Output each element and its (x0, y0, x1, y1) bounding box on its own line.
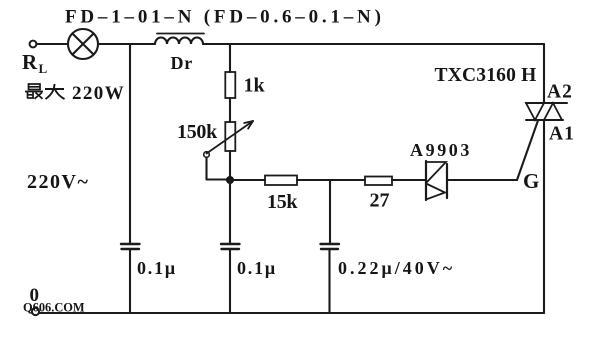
svg-text:A1: A1 (549, 124, 575, 145)
capacitor C3 0.22u (321, 244, 340, 313)
wire 27 to diac (392, 179, 426, 181)
wire junction to 15k (230, 179, 265, 181)
bottom wire (39, 312, 544, 314)
wire inductor to right corner (203, 43, 544, 45)
resistor 15k (265, 176, 297, 186)
svg-text:Q606.COM: Q606.COM (23, 301, 85, 315)
capacitor C2 0.1u (221, 244, 240, 313)
diac A9903 (426, 161, 447, 200)
svg-text:0.1μ: 0.1μ (137, 258, 177, 278)
svg-text:TXC3160 H: TXC3160 H (435, 65, 537, 86)
wire branch down to C3 (329, 180, 331, 243)
gate lead diagonal (517, 121, 538, 181)
terminal neutral bottom-left (32, 308, 39, 315)
svg-text:G: G (523, 169, 539, 193)
svg-text:220W: 220W (72, 83, 125, 104)
svg-text:0.1μ: 0.1μ (237, 258, 277, 278)
triac TXC3160 (526, 103, 567, 120)
svg-text:FD–1–01–N (FD–0.6–0.1–N): FD–1–01–N (FD–0.6–0.1–N) (65, 7, 385, 28)
wire pot to junction (229, 151, 231, 180)
svg-text:220V~: 220V~ (27, 171, 89, 193)
svg-text:L: L (39, 61, 48, 76)
wire lamp to inductor (98, 43, 155, 45)
resistor 27 (365, 177, 392, 186)
wire mid branch top (229, 44, 231, 72)
wire right branch lower (543, 120, 545, 313)
capacitor C1 0.1u (121, 244, 140, 313)
resistor 1k (225, 72, 235, 98)
potentiometer 150k (204, 121, 253, 180)
label RL (22, 50, 48, 76)
terminal input top-left (30, 41, 37, 48)
svg-text:0.22μ/40V~: 0.22μ/40V~ (338, 258, 455, 278)
svg-text:150k: 150k (177, 121, 218, 143)
junction node (226, 176, 234, 184)
svg-text:R: R (22, 50, 38, 74)
svg-text:27: 27 (370, 190, 390, 212)
wire left branch down (129, 44, 131, 243)
wire 15k to 27 (297, 179, 365, 181)
wire terminal to lamp (37, 43, 68, 45)
wire right branch upper (543, 44, 545, 103)
svg-text:A9903: A9903 (410, 140, 472, 160)
wire between 1k and pot (229, 98, 231, 122)
inductor Dr (155, 34, 204, 45)
wire diac to gate (447, 179, 517, 181)
lamp RL (68, 29, 98, 59)
svg-text:Dr: Dr (171, 53, 194, 73)
wire junction down to C2 (229, 180, 231, 243)
svg-text:15k: 15k (267, 191, 298, 213)
label max 220W (25, 83, 125, 104)
svg-text:A2: A2 (547, 82, 573, 103)
svg-text:1k: 1k (244, 75, 266, 97)
